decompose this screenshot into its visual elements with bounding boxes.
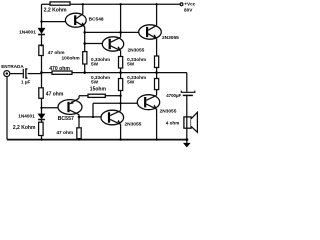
wire Q2 emitter to resistor <box>156 39 158 56</box>
label 2N3055 bottom right <box>160 108 177 114</box>
label 0,33ohm 5W row1 right <box>127 57 146 67</box>
resistor 0,33ohm 5W row2 right <box>155 79 159 90</box>
wire left column mid crossing <box>120 68 122 79</box>
svg-text:2,2 Kohm: 2,2 Kohm <box>13 125 36 131</box>
transistor Q4 2N3055 bottom middle <box>101 110 124 125</box>
wire Q3 emitter to resistor <box>120 51 122 57</box>
svg-text:80V: 80V <box>184 8 193 13</box>
wire BC548 collector <box>82 4 84 14</box>
wire Q3 collector column <box>120 4 122 37</box>
svg-text:ENTRADA: ENTRADA <box>1 64 24 69</box>
resistor 47 ohm bottom <box>77 128 81 139</box>
wire 15ohm right lead <box>105 95 120 97</box>
svg-text:2,2 Kohm: 2,2 Kohm <box>44 7 67 13</box>
wire right column to Q5 <box>156 90 158 96</box>
label 100ohm <box>62 56 80 62</box>
wire BC557 to Q4 base <box>79 116 101 118</box>
label 0,33ohm 5W row2 left <box>91 75 110 84</box>
svg-text:4 ohm: 4 ohm <box>166 120 180 125</box>
label ENTRADA <box>1 64 24 69</box>
capacitor 1 µF <box>23 69 27 78</box>
wire output branch down <box>186 73 188 117</box>
wire Q5 base <box>93 102 137 104</box>
wire Q5 base riser <box>92 103 94 117</box>
+Vcc terminal circle <box>180 3 183 6</box>
label 0,33ohm 5W row1 left <box>91 57 110 67</box>
resistor 0,33ohm 5W row1 left <box>119 57 123 69</box>
wire node emitter to Q2 base <box>85 31 139 33</box>
svg-text:2N3055: 2N3055 <box>162 35 179 41</box>
label 2N3055 middle <box>128 48 145 54</box>
svg-text:47 ohm: 47 ohm <box>46 92 64 98</box>
svg-text:1N4001: 1N4001 <box>19 29 36 35</box>
label BC557 <box>58 116 74 122</box>
wire top rail +Vcc <box>42 3 181 5</box>
label 4700µF <box>166 93 181 98</box>
resistor 2,2 Kohm top horizontal <box>50 2 70 5</box>
wire 15ohm left lead <box>79 95 88 97</box>
wire node to Q3 base <box>85 43 103 45</box>
label 47 ohm upper <box>48 50 65 56</box>
resistor 100ohm <box>83 52 87 64</box>
svg-text:47 ohm: 47 ohm <box>56 130 73 136</box>
label 47 ohm middle <box>46 92 64 98</box>
resistor 0,33ohm 5W row1 right <box>155 56 159 68</box>
wire BC548 emitter drop <box>84 27 86 73</box>
wire input to capacitor <box>10 73 23 75</box>
label +Vcc <box>184 2 195 7</box>
wire Q4 emitter to rail <box>120 124 122 139</box>
svg-text:5W: 5W <box>127 80 135 85</box>
wire left column to Q4 <box>120 91 122 111</box>
label 2N3055 bottom middle <box>125 121 142 127</box>
wire Q2 collector <box>156 4 158 25</box>
wire BC557 emitter up <box>78 96 80 99</box>
svg-text:15ohm: 15ohm <box>90 87 107 93</box>
wire input ground drop <box>6 77 8 140</box>
wire left column vertical <box>41 4 43 139</box>
transistor Q1 BC548 <box>65 13 86 27</box>
svg-text:5W: 5W <box>127 61 135 66</box>
svg-text:470 ohm: 470 ohm <box>49 66 70 72</box>
wire BC557 collector down <box>78 115 80 140</box>
capacitor 4700µF <box>181 91 195 96</box>
svg-text:100ohm: 100ohm <box>62 56 80 62</box>
label 0,33ohm 5W row2 right <box>127 75 146 84</box>
wire right column mid crossing <box>156 68 158 79</box>
resistor 47 ohm upper <box>39 45 43 55</box>
label 4 ohm <box>166 120 180 125</box>
label 470 ohm <box>49 66 70 72</box>
label 15ohm <box>90 87 107 93</box>
wire BC548 base <box>42 21 66 23</box>
svg-text:5W: 5W <box>91 61 99 66</box>
resistor 470 ohm <box>52 71 72 74</box>
resistor 2,2 Kohm bottom vertical <box>39 122 44 135</box>
wire Q5 emitter to rail <box>156 109 158 140</box>
wire BC557 base <box>42 107 59 109</box>
transistor Q2 2N3055 upper right <box>139 25 162 39</box>
svg-text:47 ohm: 47 ohm <box>48 50 65 56</box>
transistor Q3 2N3055 middle <box>102 37 123 51</box>
wire mid rail <box>42 72 187 74</box>
label 1N4001 top <box>19 29 36 35</box>
svg-text:2N3055: 2N3055 <box>160 108 177 114</box>
resistor 0,33ohm 5W row2 left <box>119 79 123 91</box>
resistor 47 ohm middle <box>39 88 43 99</box>
svg-text:2N3055: 2N3055 <box>128 48 145 54</box>
label BC548 <box>89 16 104 22</box>
diode D2 1N4001 <box>38 114 45 120</box>
wire capacitor to node <box>28 73 42 75</box>
transistor Q6 BC557 <box>58 98 82 114</box>
svg-text:BC548: BC548 <box>89 16 104 22</box>
transistor Q5 2N3055 bottom right <box>137 95 159 110</box>
svg-text:1 µF: 1 µF <box>21 80 30 85</box>
label 2N3055 upper <box>162 35 179 41</box>
svg-text:1N4001: 1N4001 <box>18 114 35 119</box>
svg-text:5W: 5W <box>91 80 99 85</box>
label 2,2 Kohm top <box>44 7 67 13</box>
wire speaker to rail <box>186 128 188 139</box>
resistor 15ohm <box>88 94 105 97</box>
diode D1 1N4001 <box>38 28 45 34</box>
svg-text:BC557: BC557 <box>58 116 74 122</box>
svg-text:4700µF: 4700µF <box>166 93 181 98</box>
svg-text:+Vcc: +Vcc <box>184 2 195 7</box>
ground <box>183 140 191 148</box>
label 47 ohm bottom <box>56 130 73 136</box>
wire bottom rail <box>7 139 188 141</box>
input terminal ENTRADA <box>4 71 10 77</box>
label 80V <box>184 8 193 13</box>
speaker 4 ohm <box>184 112 198 132</box>
label 1N4001 bottom <box>18 114 35 119</box>
label 2,2 Kohm bottom <box>13 125 36 131</box>
label 1 µF <box>21 80 30 85</box>
svg-text:2N3055: 2N3055 <box>125 121 142 127</box>
